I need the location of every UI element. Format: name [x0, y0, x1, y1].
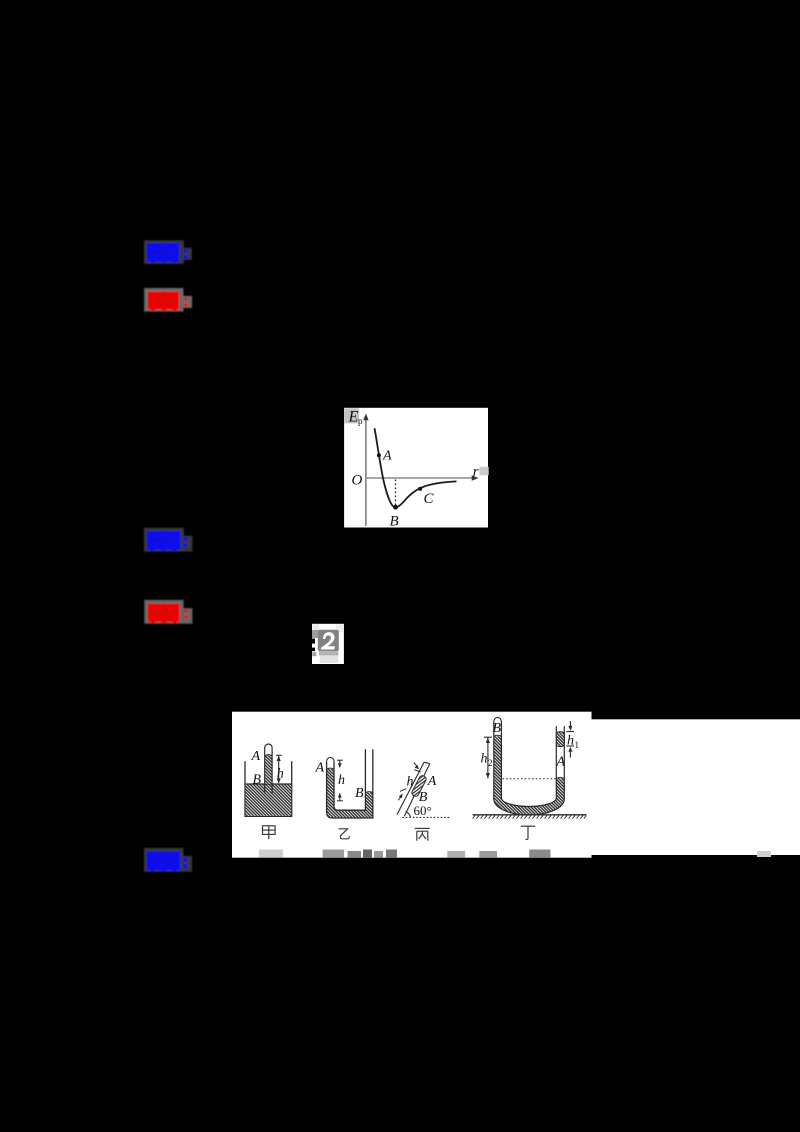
- ding mercury body: [494, 736, 565, 815]
- graph point B: [393, 505, 398, 510]
- ding closed cap: [494, 717, 502, 722]
- badge 2 gray square: [318, 630, 339, 651]
- ding right mercury meniscus: [557, 777, 565, 780]
- jia tube mercury column: [265, 755, 272, 784]
- yi left meniscus: [327, 767, 334, 770]
- ding left meniscus: [494, 734, 501, 737]
- yi closed cap: [327, 758, 334, 762]
- svg-text:A: A: [382, 449, 392, 464]
- svg-text:B: B: [253, 772, 262, 787]
- jia container mercury: [246, 784, 292, 816]
- ding ground hatching: [473, 815, 587, 818]
- svg-text:2: 2: [488, 758, 493, 768]
- ding h2 label: [481, 752, 493, 769]
- ding caption: [521, 826, 536, 839]
- svg-text:E: E: [348, 409, 359, 426]
- bing mercury slug: [411, 775, 427, 798]
- svg-text:B: B: [390, 514, 399, 530]
- yi mercury body: [327, 769, 373, 818]
- analysis label 2 (red): [144, 600, 192, 624]
- bing angle arc: [406, 812, 411, 818]
- svg-text:A: A: [251, 749, 261, 764]
- ding h2 dimension: [484, 737, 492, 778]
- jia tube interior white: [265, 746, 271, 784]
- yi right meniscus: [366, 791, 373, 794]
- bing dimension arrows: [398, 763, 419, 801]
- ding tube outer wall: [494, 722, 565, 816]
- figure panel white box right: [592, 719, 800, 855]
- ding dotted level line: [503, 778, 557, 780]
- yi h dimension: [337, 760, 343, 801]
- graph r gray patch: [479, 467, 488, 475]
- svg-text:h: h: [407, 775, 414, 790]
- graph y-axis: [363, 414, 368, 526]
- svg-text:60°: 60°: [414, 803, 432, 818]
- graph dotted line B: [395, 480, 397, 506]
- yi tube inner wall: [334, 749, 365, 810]
- svg-text:h: h: [338, 773, 345, 788]
- svg-text:A: A: [315, 761, 325, 776]
- jia mercury surface line: [246, 783, 292, 785]
- svg-text:B: B: [355, 786, 364, 801]
- bing dimension ticks: [400, 770, 421, 792]
- jia caption: [263, 826, 276, 839]
- svg-text:C: C: [424, 491, 435, 507]
- figure panel white box left: [232, 712, 592, 858]
- badge 2 shadow: [312, 651, 338, 663]
- jia h dimension: [276, 755, 282, 783]
- jia tube mercury meniscus: [265, 755, 272, 756]
- yi caption: [339, 829, 350, 839]
- graph point A: [377, 453, 381, 457]
- svg-text:h: h: [277, 766, 284, 781]
- answer label 2 (blue): [144, 528, 193, 552]
- svg-text:r: r: [473, 464, 479, 480]
- analysis label 1 (red): [144, 288, 192, 312]
- svg-text:p: p: [358, 416, 363, 426]
- ding h1 dimension: [566, 721, 574, 758]
- ding h1 label: [567, 734, 579, 751]
- graph panel white box: [344, 408, 488, 528]
- yi tube outer wall: [327, 749, 373, 818]
- bing tube lines: [397, 762, 430, 816]
- answer label 3 (blue): [144, 848, 192, 872]
- svg-text:1: 1: [575, 740, 580, 750]
- svg-text:A: A: [427, 774, 437, 789]
- svg-text:O: O: [352, 473, 363, 489]
- badge 2 numeral: [321, 632, 335, 649]
- badge 2 white box: [312, 624, 344, 664]
- ding ground line: [473, 814, 587, 816]
- ding right slug: [556, 732, 564, 747]
- bottom text fragments: [259, 850, 771, 858]
- svg-text:h: h: [567, 734, 574, 749]
- graph Ep label gray patch: [344, 408, 359, 423]
- jia tube walls: [265, 744, 272, 794]
- svg-text:A: A: [556, 754, 566, 769]
- bing caption: [415, 828, 430, 840]
- badge 2 corner tints: [312, 624, 344, 638]
- jia container walls: [245, 761, 292, 816]
- badge 2 black notches: [312, 639, 315, 652]
- graph point C: [418, 487, 422, 491]
- graph curve: [375, 428, 457, 507]
- answer label 1 (blue): [144, 240, 192, 264]
- svg-text:B: B: [493, 721, 502, 736]
- graph Ep label: [348, 409, 364, 427]
- ding tube inner wall: [501, 722, 556, 807]
- svg-text:h: h: [481, 752, 488, 767]
- graph x-axis: [366, 475, 479, 480]
- bing baseline dotted: [402, 816, 450, 818]
